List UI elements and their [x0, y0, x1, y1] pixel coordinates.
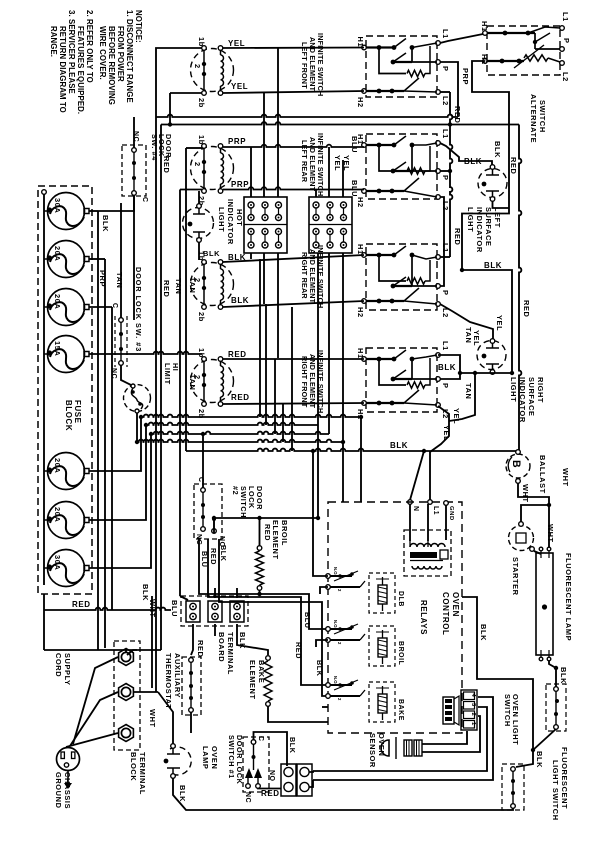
svg-text:YEL: YEL: [452, 408, 461, 424]
svg-text:WHT: WHT: [521, 484, 530, 503]
svg-text:RED: RED: [228, 350, 247, 359]
wire starter bottom: [534, 551, 541, 554]
wire SW2 L2 to SW3 P: [440, 197, 444, 286]
wire SW3 L2 to right light top: [440, 304, 493, 339]
wire left light route down: [462, 198, 509, 270]
wire door lock 2 RED down: [208, 539, 328, 685]
label BLK door lock 2: [219, 545, 324, 677]
svg-text:BLK: BLK: [315, 660, 324, 677]
svg-text:CORD: CORD: [54, 653, 63, 677]
wire right light bottom BLK: [440, 373, 512, 379]
svg-text:YEL: YEL: [228, 39, 245, 48]
svg-text:H2: H2: [356, 97, 365, 108]
labels H1 H2 right rear: [356, 244, 365, 318]
svg-text:BLK: BLK: [493, 141, 502, 158]
label terminal block: [129, 752, 147, 795]
wire E3 top to SW3 H1: [223, 255, 364, 262]
oven control box: [328, 502, 462, 733]
wire BLK oven control to flu switch: [462, 597, 533, 767]
svg-text:GROUND: GROUND: [54, 772, 63, 809]
svg-text:SURFACE: SURFACE: [527, 377, 536, 417]
terminal grid A: [244, 197, 287, 253]
wire left light bottom: [493, 201, 510, 208]
svg-text:BLOCK: BLOCK: [64, 400, 73, 431]
labels L1 P L2 left front: [441, 29, 450, 106]
wire conn2 stub: [214, 588, 216, 598]
wire BLK from F1: [98, 211, 110, 650]
svg-text:BLK: BLK: [101, 215, 110, 232]
wire door lock 3 feed: [120, 203, 122, 318]
mid drops from elements: [260, 259, 292, 451]
grid A drops: [251, 253, 278, 358]
wire collector to hex1: [44, 610, 137, 653]
svg-text:OVEN: OVEN: [451, 592, 460, 617]
wire PRP vertical end: [157, 691, 159, 693]
terminal GND: [444, 501, 454, 540]
svg-text:L1: L1: [432, 506, 439, 515]
svg-text:H1: H1: [356, 244, 365, 255]
svg-text:DLB: DLB: [397, 591, 404, 607]
svg-text:N.O.: N.O.: [333, 676, 338, 685]
svg-text:FUSE: FUSE: [73, 400, 82, 424]
alternate switch labels: [480, 12, 571, 82]
svg-text:BLK: BLK: [231, 296, 249, 305]
svg-text:P: P: [441, 383, 450, 389]
grid B drops: [318, 253, 343, 518]
hi limit switch: [124, 384, 151, 413]
wire riser F6: [90, 425, 147, 520]
wire E2 1b left: [186, 147, 202, 149]
label oven control: [441, 592, 460, 635]
wire E1 top YEL to H1: [223, 47, 364, 50]
svg-text:WIRE COVER.: WIRE COVER.: [98, 26, 107, 80]
svg-text:BOARD: BOARD: [217, 632, 226, 662]
wire SW1 L2 to RED bus: [440, 91, 450, 93]
alternate switch: [483, 26, 565, 75]
labels L1 P L2 left rear: [441, 129, 450, 211]
svg-text:NC: NC: [110, 368, 117, 379]
svg-text:P: P: [441, 175, 450, 181]
wire NO to broil feed: [214, 518, 260, 533]
wire bus5 to N: [410, 451, 424, 500]
svg-text:GND: GND: [448, 506, 454, 521]
wire F2 stub: [90, 258, 106, 260]
svg-text:RANGE.: RANGE.: [49, 26, 58, 57]
grid B risers: [316, 147, 343, 197]
terminal board: [181, 596, 248, 626]
wire long vertical from E2 1b: [185, 148, 187, 451]
svg-text:B: B: [510, 460, 522, 468]
svg-text:YEL: YEL: [231, 82, 248, 91]
fluorescent light switch: [502, 764, 524, 810]
wire door lock 3 to hi limit: [121, 365, 131, 385]
svg-text:NC: NC: [132, 131, 139, 142]
hot indicator light: [183, 204, 214, 243]
wire right light TAN drop: [449, 373, 475, 421]
svg-text:SUPPLY: SUPPLY: [63, 653, 72, 686]
label infinite switch and element LEFT FRONT: [300, 33, 325, 96]
svg-text:20A: 20A: [53, 458, 62, 473]
svg-text:THERMOSTAT: THERMOSTAT: [164, 653, 173, 709]
wire conn3 to bake: [237, 624, 268, 655]
terminal grid B: [309, 197, 352, 253]
wire SW2 L1 to left light: [440, 143, 492, 165]
wire broil top: [260, 518, 319, 546]
svg-text:RED: RED: [453, 228, 462, 245]
svg-text:BLK: BLK: [141, 584, 150, 601]
svg-text:LIGHT: LIGHT: [466, 207, 475, 232]
svg-text:H1: H1: [356, 348, 365, 359]
wire broil bottom: [259, 590, 261, 594]
svg-text:BLK: BLK: [288, 737, 297, 754]
svg-text:SWITCH #1: SWITCH #1: [227, 735, 236, 779]
svg-text:P: P: [441, 290, 450, 296]
svg-text:WHT: WHT: [148, 709, 157, 728]
label BLK left light top: [464, 141, 502, 166]
broil element: [256, 546, 264, 591]
wire door lock 2 BLU down: [199, 539, 328, 629]
surface element E1 left front: [191, 46, 234, 96]
fuse block dashed outline: [38, 186, 92, 594]
wire relay DLB t2: [320, 587, 328, 594]
svg-text:RED: RED: [231, 393, 250, 402]
svg-text:RED: RED: [263, 524, 272, 541]
svg-text:30A: 30A: [53, 555, 62, 570]
svg-text:STARTER: STARTER: [511, 557, 520, 596]
svg-text:LEFT: LEFT: [493, 207, 502, 228]
wire E1 2b left: [170, 93, 202, 125]
svg-text:SW. #4: SW. #4: [150, 134, 159, 161]
svg-text:BLK: BLK: [438, 363, 456, 372]
labels YEL YEL mid: [333, 155, 351, 171]
wire BLK bus right: [462, 270, 512, 373]
wire connector B out top: [309, 771, 313, 772]
connector 4 pin: [461, 690, 477, 730]
fuse F2 20A: [44, 241, 89, 278]
wire from door lock 4 down: [133, 196, 135, 320]
connector A: [281, 764, 296, 796]
wire pin3 bus: [313, 707, 487, 771]
svg-text:TERMINAL: TERMINAL: [138, 752, 147, 795]
junction dots 2: [135, 415, 558, 670]
wire L1 to transformer: [427, 504, 429, 541]
chassis ground: [57, 748, 80, 790]
transformer: [404, 530, 451, 576]
wire supply cord 1: [73, 657, 118, 744]
wire long vertical PRP: [155, 117, 157, 692]
label oven lamp: [201, 746, 219, 769]
relay BAKE: [326, 676, 395, 722]
wire alt H1 to sw1 L1: [440, 34, 483, 43]
supply terminal block: [114, 641, 140, 750]
svg-text:PRP: PRP: [231, 180, 249, 189]
wire hot light top: [198, 191, 200, 204]
svg-text:RED: RED: [72, 600, 91, 609]
wire supply cord 2: [70, 692, 118, 746]
labels YEL TAN right light top: [464, 315, 504, 346]
svg-text:BROIL: BROIL: [397, 641, 404, 665]
wire RED bus: [161, 122, 519, 124]
svg-text:RED: RED: [209, 548, 218, 565]
label left surface indicator light: [466, 207, 502, 253]
svg-text:LEFT FRONT: LEFT FRONT: [300, 42, 309, 89]
auxiliary thermostat: [182, 657, 201, 715]
svg-text:BLK: BLK: [559, 667, 568, 684]
labels N L1 oven control: [412, 506, 439, 515]
wire lamp bottom to oven light switch: [549, 661, 556, 687]
labels H1 H2 left front: [356, 37, 365, 108]
label RED door lock 2: [209, 548, 303, 659]
labels L1 P L2 right front: [441, 341, 450, 419]
fuse F5 20A: [44, 453, 89, 490]
svg-text:3. SERVICER PLEASE: 3. SERVICER PLEASE: [67, 10, 76, 94]
label RED sw column: [453, 106, 462, 245]
svg-text:P: P: [562, 38, 571, 44]
svg-text:PRP: PRP: [98, 270, 107, 287]
infinite switch right front: [362, 348, 441, 412]
svg-text:BLK: BLK: [464, 157, 482, 166]
label bake element: [248, 660, 266, 700]
wire relay BAKE t2 stub: [322, 706, 328, 708]
starter: [509, 522, 535, 552]
connector black: [443, 696, 459, 725]
relay BROIL: [326, 620, 395, 666]
wire SW4 L2 YEL to L1 terminal: [408, 406, 449, 504]
svg-text:RED: RED: [509, 157, 518, 174]
svg-text:L1: L1: [441, 243, 450, 253]
svg-text:RED: RED: [522, 300, 531, 317]
svg-text:H1: H1: [480, 21, 489, 32]
svg-text:SWITCH: SWITCH: [503, 694, 512, 727]
svg-text:RED: RED: [453, 106, 462, 123]
svg-text:CHASSIS: CHASSIS: [63, 772, 72, 809]
svg-text:RED: RED: [294, 642, 303, 659]
svg-text:BLK: BLK: [219, 545, 228, 562]
svg-text:RIGHT: RIGHT: [536, 377, 545, 403]
notice text: [49, 10, 143, 114]
label oven sensor: [368, 733, 386, 768]
svg-text:LIGHT: LIGHT: [217, 207, 226, 232]
wire supply cord 3: [66, 733, 118, 747]
door lock switch 3: [115, 316, 127, 367]
wire door lock1 C to connector: [254, 732, 288, 766]
svg-text:L1: L1: [441, 29, 450, 39]
svg-text:NC: NC: [244, 792, 251, 803]
svg-text:BLU: BLU: [350, 180, 359, 197]
svg-text:NOTICE:: NOTICE:: [134, 10, 143, 43]
svg-text:BLK: BLK: [484, 261, 502, 270]
wire RED vertical sw2P sw3L1: [440, 92, 452, 257]
wire relay BROIL t2: [316, 640, 328, 647]
wire hi limit to bus: [136, 413, 138, 442]
svg-text:1b: 1b: [197, 348, 206, 358]
svg-text:BLK: BLK: [178, 785, 187, 802]
svg-text:BLU: BLU: [303, 612, 312, 629]
wire E3 bottom to SW3 H2: [223, 301, 364, 307]
svg-text:L2: L2: [441, 96, 450, 106]
door lock switch 2: [194, 484, 222, 539]
infinite switch left rear: [362, 134, 441, 199]
fuse F4 15A: [44, 336, 89, 373]
surface element E3 right rear: [191, 260, 234, 310]
svg-text:WHT: WHT: [546, 524, 555, 543]
svg-text:TERMINAL: TERMINAL: [226, 632, 235, 675]
hot indicator light label: [217, 199, 244, 245]
wire PRP from F2: [98, 259, 107, 648]
label supply cord: [54, 653, 72, 686]
ballast: [506, 450, 530, 484]
wire fuse bus: [42, 190, 47, 585]
oven sensor: [381, 737, 422, 759]
infinite switch right rear: [362, 244, 441, 310]
labels H1 H2 left rear: [356, 134, 365, 208]
svg-text:BLOCK: BLOCK: [129, 752, 138, 781]
svg-text:RETURN DIAGRAM TO: RETURN DIAGRAM TO: [58, 26, 67, 113]
svg-text:H2: H2: [356, 197, 365, 208]
left surface indicator light: [478, 165, 507, 202]
svg-text:ALTERNATE: ALTERNATE: [529, 94, 538, 143]
fuse F7 30A: [44, 550, 89, 587]
labels RED mid: [162, 156, 171, 297]
wire long vertical RED: [127, 125, 161, 656]
svg-text:BLK: BLK: [479, 624, 488, 641]
svg-text:H2: H2: [480, 54, 489, 65]
svg-text:L2: L2: [441, 201, 450, 211]
wire relay DLB feed: [313, 451, 328, 576]
wire WHT hex2 to oven lamp: [134, 692, 173, 744]
wire TAN from F3: [112, 272, 124, 610]
label right surface indicator light: [509, 377, 545, 423]
wire door lock 2 C up: [202, 434, 204, 488]
wire hot light bottom: [198, 242, 200, 260]
wire conn3 stub: [236, 588, 238, 598]
svg-text:C: C: [141, 197, 148, 203]
svg-text:RIGHT FRONT: RIGHT FRONT: [300, 356, 309, 408]
svg-text:H1: H1: [356, 37, 365, 48]
wire alt H2 down: [472, 61, 509, 198]
svg-text:2: 2: [193, 162, 202, 167]
svg-text:RED: RED: [261, 789, 280, 798]
labels H1 H2 right front: [356, 348, 365, 420]
door lock sw4 labels: [132, 131, 148, 203]
surface element E4 right front: [191, 357, 234, 407]
right surface indicator light: [477, 339, 506, 375]
svg-text:BAKE: BAKE: [257, 660, 266, 683]
fuse F1 30A: [44, 193, 89, 230]
wire conn1 to aux thermostat: [191, 624, 193, 655]
svg-text:YEL: YEL: [495, 315, 504, 331]
svg-text:15A: 15A: [53, 341, 62, 356]
wire long vertical from E2 2b: [180, 190, 188, 601]
wire bus5 BLK: [186, 449, 518, 451]
bake element: [264, 656, 272, 707]
wire from F4: [90, 352, 203, 354]
svg-text:BEFORE REMOVING: BEFORE REMOVING: [107, 26, 116, 105]
infinite switch left front: [362, 36, 441, 97]
svg-text:RIGHT REAR: RIGHT REAR: [300, 252, 309, 299]
svg-text:#2: #2: [231, 486, 240, 495]
svg-text:TAN: TAN: [174, 278, 183, 294]
svg-text:30A: 30A: [53, 198, 62, 213]
svg-text:INDICATOR: INDICATOR: [226, 199, 235, 245]
svg-text:OVEN: OVEN: [377, 733, 386, 756]
wire bus1: [141, 415, 361, 502]
label alternate switch: [529, 94, 547, 143]
svg-text:2. REFER ONLY TO: 2. REFER ONLY TO: [85, 10, 94, 83]
wire door lock 2 BLK down: [219, 539, 328, 696]
wire N to transformer: [409, 504, 411, 541]
wire sensor to pin2: [422, 716, 480, 752]
fuse F3 20A: [44, 289, 89, 326]
svg-text:BAKE: BAKE: [397, 699, 404, 721]
svg-text:FLUORESCENT LAMP: FLUORESCENT LAMP: [564, 553, 573, 641]
svg-text:RED: RED: [196, 640, 205, 657]
labels BLU SW2: [350, 136, 359, 197]
svg-text:L1: L1: [441, 341, 450, 351]
label chassis ground: [54, 772, 72, 809]
svg-text:RED: RED: [162, 280, 171, 297]
svg-text:C: C: [111, 303, 118, 309]
svg-text:C: C: [257, 736, 264, 742]
svg-text:BLU: BLU: [170, 600, 179, 617]
label door lock switch 2: [231, 486, 264, 518]
svg-text:20A: 20A: [53, 507, 62, 522]
svg-text:L1: L1: [561, 12, 570, 22]
wire pin4 bus: [313, 697, 493, 780]
oven light switch: [546, 684, 566, 731]
svg-text:TAN: TAN: [188, 277, 197, 293]
svg-text:TAN: TAN: [115, 272, 124, 288]
svg-text:ELEMENT: ELEMENT: [248, 660, 257, 700]
wire sensor to pin1: [422, 731, 467, 744]
svg-text:BLK: BLK: [203, 249, 220, 258]
svg-text:TAN: TAN: [464, 383, 473, 399]
svg-text:AUXILIARY: AUXILIARY: [173, 653, 182, 698]
wire riser F7: [90, 434, 152, 568]
svg-text:WHT: WHT: [561, 468, 570, 487]
svg-text:CONTROL: CONTROL: [441, 592, 450, 635]
wire door lock sw4 top: [133, 117, 135, 148]
label infinite switch and element LEFT REAR: [300, 133, 325, 196]
svg-text:DOOR LOCK SW. #3: DOOR LOCK SW. #3: [134, 267, 143, 352]
labels YEL sw4: [442, 408, 461, 441]
wire connector B out bottom: [309, 780, 313, 787]
svg-text:2: 2: [193, 64, 202, 69]
svg-text:LIGHT: LIGHT: [509, 377, 518, 402]
svg-text:N.O.: N.O.: [333, 620, 338, 629]
svg-text:L2: L2: [561, 72, 570, 82]
wire SW4 L1 up: [438, 355, 460, 373]
wire RED bottom left: [44, 594, 171, 610]
label infinite switch and element RIGHT FRONT: [300, 350, 325, 413]
door lock sw1 labels: [244, 736, 275, 803]
svg-text:BROIL: BROIL: [280, 520, 289, 546]
svg-text:2b: 2b: [197, 98, 206, 108]
svg-text:YEL: YEL: [442, 425, 451, 441]
label terminal board: [217, 632, 235, 675]
surface element E2 left rear: [191, 144, 234, 194]
wire E4 top to SW4 H1: [223, 358, 364, 360]
wire bus3: [151, 432, 329, 434]
wire F3 stub: [90, 306, 113, 308]
svg-text:NO: NO: [268, 770, 275, 782]
wire bus4: [137, 440, 343, 442]
svg-text:BALLAST: BALLAST: [538, 455, 547, 494]
wire E1 bottom YEL to H2: [223, 91, 364, 93]
oven lamp: [164, 744, 192, 779]
wire oven light switch bottom: [533, 729, 556, 750]
svg-text:HOT: HOT: [235, 209, 244, 226]
